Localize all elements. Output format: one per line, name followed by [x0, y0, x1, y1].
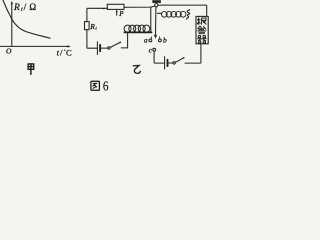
svg-text:6: 6	[103, 78, 109, 93]
coil left lead down	[127, 32, 129, 48]
graph x-axis	[0, 45, 69, 47]
switch 1	[108, 47, 110, 49]
svg-text:O: O	[6, 47, 12, 56]
svg-text:a: a	[144, 35, 148, 44]
svg-text:Ω: Ω	[29, 2, 36, 12]
alarm text qi	[197, 36, 206, 43]
svg-text:b: b	[163, 35, 167, 44]
wiper arrow	[116, 11, 118, 15]
top wire to pivot	[124, 6, 155, 7]
caption tu 6	[91, 81, 100, 90]
svg-text:P: P	[118, 10, 124, 18]
battery 1 short plate	[99, 45, 101, 51]
rheostat box	[107, 4, 124, 9]
top wire to alarm	[158, 5, 207, 16]
wire to switch 2	[168, 62, 173, 64]
contact a	[149, 39, 152, 42]
thermistor curve	[3, 0, 50, 38]
armature	[155, 7, 157, 35]
thermistor Rt box	[85, 22, 90, 30]
left vertical below Rt	[87, 30, 97, 49]
pivot support	[152, 0, 161, 3]
wire from switch 1 to coil lead	[121, 47, 127, 49]
alarm text jing	[198, 26, 206, 34]
label yi (CJK path)	[133, 65, 140, 73]
junction dot	[103, 8, 105, 10]
electromagnet core bar	[124, 31, 151, 33]
axis label Rt/ohm	[13, 2, 36, 13]
wire to switch 1	[101, 47, 108, 49]
circuit: top-left corner wire	[87, 8, 107, 21]
switch 2	[173, 62, 175, 64]
alarm text bao	[197, 18, 206, 25]
x axis label t/C	[57, 48, 72, 58]
battery 2 long plate	[164, 57, 166, 69]
pivot ring	[155, 3, 158, 6]
spring anchor squiggle	[187, 10, 190, 19]
wire from switch 2 to alarm	[185, 44, 201, 63]
contact b	[159, 39, 162, 42]
graph y-axis	[11, 3, 13, 47]
svg-text:C: C	[66, 48, 72, 58]
label jia (CJK drawn as paths)	[28, 64, 34, 74]
contact c	[153, 48, 156, 51]
svg-text:R: R	[13, 3, 20, 13]
battery 2 short plate	[167, 60, 169, 66]
coil loops	[124, 25, 131, 32]
wire from c down	[154, 51, 164, 63]
battery 1 long plate	[96, 42, 98, 55]
svg-text:/: /	[24, 3, 27, 13]
alarm box	[196, 16, 208, 43]
svg-text:R: R	[89, 22, 95, 31]
spring	[157, 12, 161, 14]
coil right vertical	[150, 7, 152, 32]
